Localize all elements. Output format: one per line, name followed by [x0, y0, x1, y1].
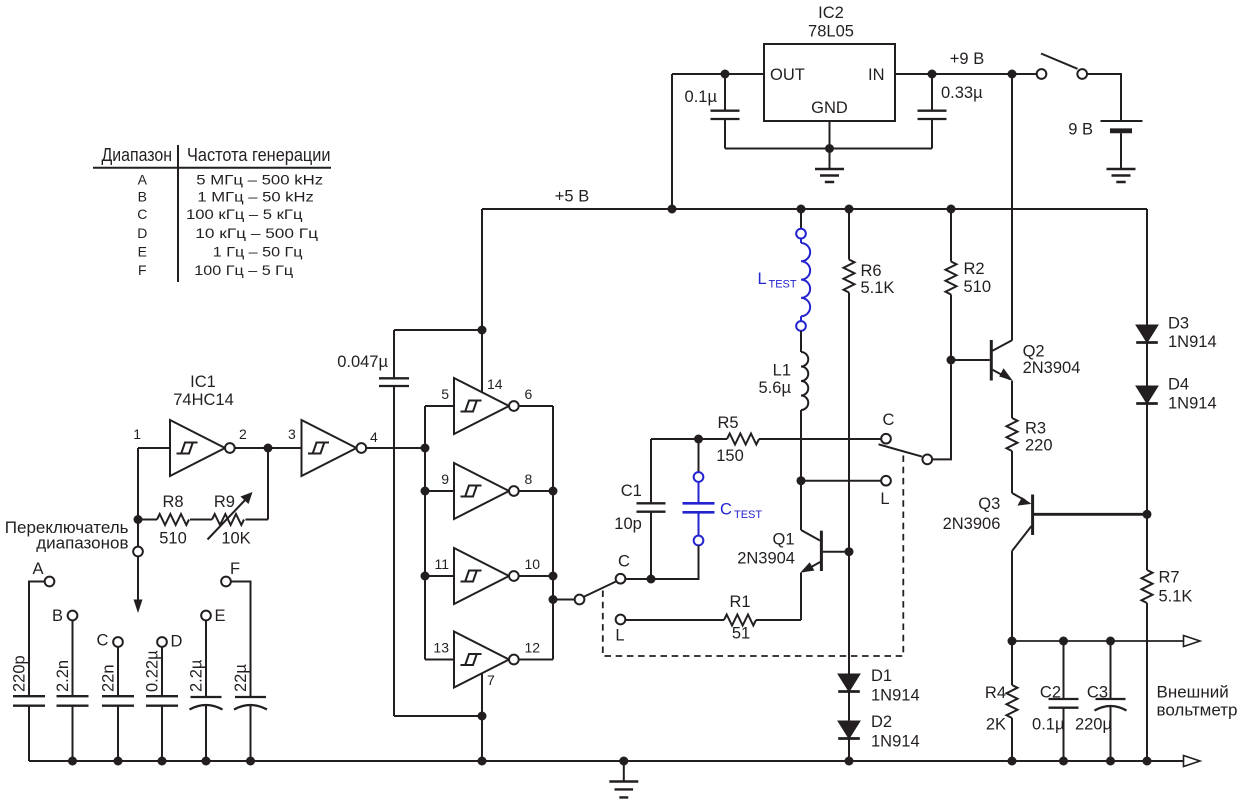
capacitor 0.33u — [918, 74, 984, 149]
capacitor C1 10p — [614, 439, 665, 579]
capacitor 0.047u — [337, 330, 409, 716]
svg-text:IC1: IC1 — [190, 373, 216, 391]
resistor R9 10K variable — [212, 514, 244, 525]
wire to range switch terminal — [137, 520, 139, 547]
svg-text:D2: D2 — [871, 713, 892, 731]
node Q3 base/right rail — [1143, 510, 1152, 519]
svg-text:220µ: 220µ — [1075, 716, 1113, 734]
svg-text:1N914: 1N914 — [1168, 395, 1217, 413]
svg-text:Q2: Q2 — [1023, 342, 1045, 360]
node rail/R2 junction — [947, 205, 956, 214]
svg-text:5.1K: 5.1K — [1159, 588, 1193, 606]
wire D1 to D2 — [848, 692, 850, 722]
wire GND pin stem — [829, 121, 831, 169]
svg-text:1N914: 1N914 — [871, 687, 920, 705]
svg-text:2.2n: 2.2n — [54, 660, 72, 692]
battery 9V — [1068, 121, 1142, 170]
wire switch to battery — [1087, 74, 1121, 120]
wire +9V down to Q2 collector — [1011, 74, 1013, 341]
node bank C/ground rail — [114, 757, 123, 766]
wire selector common to Q2 base node — [932, 365, 951, 460]
wire bus to left selector — [553, 599, 575, 601]
wire ground rail — [29, 760, 1186, 762]
wire left vertical down to +5 rail — [671, 74, 673, 209]
node feedback tap — [264, 444, 273, 453]
wire R7 to ground rail — [1146, 603, 1148, 761]
svg-text:R3: R3 — [1025, 420, 1046, 438]
svg-text:L: L — [758, 270, 767, 288]
svg-text:+9 В: +9 В — [950, 50, 984, 68]
ground battery — [1107, 169, 1136, 182]
range switch wiper arrow — [137, 556, 139, 601]
svg-text:R6: R6 — [861, 262, 882, 280]
svg-text:Внешний: Внешний — [1157, 683, 1229, 702]
svg-text:510: 510 — [964, 278, 992, 296]
inductor L1 5.6u — [759, 352, 809, 410]
svg-text:100 Гц – 5 Гц: 100 Гц – 5 Гц — [194, 262, 293, 278]
svg-text:D4: D4 — [1168, 376, 1189, 394]
svg-text:2.2µ: 2.2µ — [188, 659, 206, 692]
svg-text:OUT: OUT — [770, 66, 805, 84]
node Q1 base junction — [845, 547, 854, 556]
wire output stubs — [519, 405, 553, 407]
svg-text:12: 12 — [525, 640, 541, 656]
transistor Q3 2N3906 — [943, 493, 1147, 641]
svg-text:Частота генерации: Частота генерации — [187, 145, 331, 165]
wire R3 to Q3 emitter — [1011, 451, 1013, 493]
wire L1 down to Q1 collector — [800, 410, 802, 530]
svg-text:C1: C1 — [621, 482, 642, 500]
svg-text:10 кГц – 500 Гц: 10 кГц – 500 Гц — [195, 225, 318, 241]
wire 0.047 bottom link — [394, 715, 482, 717]
resistor R1 51 — [724, 615, 756, 626]
svg-text:C: C — [618, 553, 630, 571]
svg-text:диапазонов: диапазонов — [36, 534, 128, 553]
wire output sense line — [1012, 640, 1186, 642]
node rail/OUT junction — [668, 205, 677, 214]
svg-text:D: D — [171, 633, 183, 651]
svg-text:R2: R2 — [964, 260, 985, 278]
node GND junction — [825, 144, 834, 153]
svg-text:E: E — [214, 607, 225, 625]
dashed test enclosure — [603, 454, 904, 657]
wire D3 to D4 — [1146, 343, 1148, 387]
svg-text:0.33µ: 0.33µ — [941, 84, 983, 102]
svg-text:вольтметр: вольтметр — [1157, 701, 1238, 720]
svg-text:R5: R5 — [717, 414, 738, 432]
diode D2 1N914 — [838, 721, 860, 739]
resistor R8 510 — [157, 514, 189, 525]
ground IC2 — [815, 169, 844, 182]
op-amp U1C schmitt inverter pins 5-6 — [454, 378, 519, 434]
inductor LTEST (device under test, blue) — [758, 209, 811, 331]
node L-terminal tap — [797, 476, 806, 485]
svg-text:C2: C2 — [1040, 684, 1061, 702]
svg-text:78L05: 78L05 — [808, 23, 854, 41]
capacitor C2 0.1u — [1032, 641, 1078, 761]
capacitor bank B 2.2n — [52, 607, 89, 761]
wire R1 line — [625, 619, 724, 621]
svg-text:0.1µ: 0.1µ — [1032, 716, 1065, 734]
wire C terminal to C1/CTEST — [625, 545, 698, 579]
wire +5 left drop to pin 14 — [481, 209, 483, 392]
wire input pin1 — [138, 447, 170, 449]
svg-text:L: L — [615, 627, 624, 645]
table: frequency range table — [93, 145, 331, 282]
wire LTEST to L1 — [800, 331, 802, 352]
switch right C/L selector — [879, 411, 933, 508]
svg-text:C: C — [883, 411, 895, 429]
node bank E/ground rail — [202, 757, 211, 766]
svg-text:14: 14 — [487, 376, 503, 392]
svg-text:9: 9 — [441, 471, 449, 487]
node R7/ground rail — [1143, 757, 1152, 766]
svg-text:2N3904: 2N3904 — [737, 550, 795, 568]
wire feedback horizontal segments — [246, 519, 269, 521]
svg-text:220p: 220p — [11, 655, 29, 692]
diode D1 1N914 — [838, 674, 860, 692]
svg-text:TEST: TEST — [734, 509, 762, 521]
svg-text:1: 1 — [133, 426, 141, 442]
svg-text:1N914: 1N914 — [871, 733, 920, 751]
svg-text:F: F — [138, 262, 147, 278]
svg-text:1 МГц – 50 kHz: 1 МГц – 50 kHz — [197, 189, 313, 205]
wire to right L terminal — [801, 480, 881, 482]
svg-text:IN: IN — [868, 66, 885, 84]
node/ground stem — [619, 757, 628, 766]
svg-text:TEST: TEST — [769, 279, 797, 291]
resistor R4 2K — [985, 641, 1018, 761]
transistor Q2 2N3904 — [951, 340, 1080, 418]
svg-text:R8: R8 — [162, 493, 183, 511]
node bank F/ground rail — [246, 757, 255, 766]
svg-text:R7: R7 — [1159, 569, 1180, 587]
svg-text:11: 11 — [434, 556, 449, 572]
svg-text:51: 51 — [732, 625, 750, 643]
node rail/R6 junction — [845, 205, 854, 214]
svg-text:0.22µ: 0.22µ — [144, 650, 162, 692]
wire D4 down through base node to R7 — [1146, 404, 1148, 571]
svg-text:5: 5 — [441, 386, 449, 402]
op-amp U1E schmitt inverter pins 11-10 — [454, 548, 519, 604]
svg-text:R9: R9 — [214, 493, 235, 511]
svg-text:1 Гц – 50 Гц: 1 Гц – 50 Гц — [213, 244, 303, 260]
svg-text:2: 2 — [239, 426, 247, 442]
op-amp U1F schmitt inverter pins 13-12 — [454, 632, 519, 688]
svg-text:13: 13 — [433, 640, 449, 656]
svg-text:GND: GND — [811, 99, 848, 117]
svg-text:L: L — [880, 490, 889, 508]
svg-text:220: 220 — [1025, 437, 1053, 455]
node Q2 base junction — [947, 356, 956, 365]
node bank B/ground rail — [68, 757, 77, 766]
node +9V junction — [1008, 70, 1017, 79]
wire IN pin to switch — [895, 73, 1037, 75]
op-amp U1D schmitt inverter pins 9-8 — [454, 463, 519, 519]
wire OUT pin to left vertical — [672, 73, 764, 75]
transistor Q1 2N3904 — [737, 530, 849, 620]
svg-text:22n: 22n — [100, 664, 118, 692]
node feedback/switch junction — [134, 515, 143, 524]
svg-text:510: 510 — [159, 530, 187, 548]
svg-text:A: A — [138, 172, 148, 188]
resistor R7 5.1K — [1142, 570, 1153, 603]
svg-text:C: C — [97, 632, 109, 650]
op-amp U1B schmitt inverter pins 3-4 — [302, 420, 367, 476]
svg-text:7: 7 — [487, 672, 495, 688]
diode D4 1N914 — [1136, 386, 1158, 404]
range switch pole circle — [133, 547, 143, 557]
capacitor 0.1u — [685, 74, 740, 149]
svg-text:10p: 10p — [614, 515, 642, 533]
svg-text:L1: L1 — [773, 362, 791, 380]
svg-text:4: 4 — [370, 429, 378, 445]
svg-text:74HC14: 74HC14 — [173, 391, 234, 409]
wire ground bus under IC2 — [725, 148, 932, 150]
svg-text:D3: D3 — [1168, 315, 1189, 333]
node D2/ground rail — [845, 757, 854, 766]
svg-text:R1: R1 — [729, 593, 750, 611]
capacitor bank F 22u polarized — [221, 560, 267, 761]
svg-text:3: 3 — [288, 426, 296, 442]
wire +5 V rail — [482, 208, 1147, 210]
node bank D/ground rail — [158, 757, 167, 766]
svg-text:C: C — [137, 206, 147, 222]
svg-text:22µ: 22µ — [232, 664, 250, 692]
wire feedback left rise to pin1 — [137, 448, 139, 520]
wire feedback right drop — [267, 448, 269, 520]
svg-text:B: B — [52, 607, 63, 625]
svg-text:IC2: IC2 — [818, 4, 844, 22]
svg-text:150: 150 — [716, 447, 744, 465]
resistor R3 220 — [1007, 418, 1018, 451]
svg-text:Q3: Q3 — [978, 495, 1000, 513]
svg-text:B: B — [138, 189, 147, 205]
svg-text:C: C — [720, 501, 732, 519]
wire right rail top — [1146, 209, 1148, 325]
IC2 regulator box 78L05 — [764, 4, 895, 121]
wire R5 line — [651, 438, 727, 440]
wire pin2 to pin3 — [235, 447, 302, 449]
resistor R5 150 — [727, 434, 759, 445]
svg-text:5 МГц – 500 kHz: 5 МГц – 500 kHz — [196, 172, 323, 188]
svg-text:R4: R4 — [985, 684, 1006, 702]
wire D2 to ground rail — [848, 739, 850, 762]
node 0.047 top tee — [478, 326, 487, 335]
svg-text:2K: 2K — [986, 716, 1006, 734]
node 0.047 bottom tee — [478, 712, 487, 721]
svg-text:10: 10 — [525, 556, 541, 572]
svg-text:C3: C3 — [1087, 684, 1108, 702]
svg-text:D: D — [137, 225, 147, 241]
capacitor CTEST (device under test, blue) — [683, 439, 763, 579]
node CTEST top tee — [694, 435, 703, 444]
node C1 bottom tee — [647, 575, 656, 584]
node C3/ground rail — [1106, 757, 1115, 766]
svg-text:2N3904: 2N3904 — [1023, 359, 1081, 377]
svg-text:0.047µ: 0.047µ — [337, 353, 388, 371]
capacitor C3 220u polarized — [1075, 641, 1127, 761]
wire input stubs — [425, 405, 454, 407]
node pin7/ground rail — [478, 757, 487, 766]
diode D3 1N914 — [1136, 325, 1158, 343]
switch power on/off — [1037, 54, 1087, 79]
svg-text:9 В: 9 В — [1068, 121, 1093, 139]
node IN/C0.33 junction — [928, 70, 937, 79]
switch left C/L selector — [575, 553, 630, 645]
svg-text:A: A — [32, 560, 43, 578]
svg-text:8: 8 — [525, 471, 533, 487]
svg-text:2N3906: 2N3906 — [943, 515, 1001, 533]
svg-text:D1: D1 — [871, 667, 892, 685]
svg-text:10K: 10K — [221, 530, 250, 548]
wire R6 to D1 — [848, 293, 850, 675]
resistor R6 5.1K — [844, 209, 895, 297]
wire 0.047 top link — [394, 329, 482, 331]
wire pin4 to bank input bus — [366, 447, 425, 449]
capacitor bank E 2.2u polarized — [188, 607, 226, 761]
svg-text:Q1: Q1 — [772, 531, 794, 549]
svg-text:F: F — [230, 560, 240, 578]
ground main — [609, 782, 638, 798]
svg-text:5.6µ: 5.6µ — [759, 379, 792, 397]
wire pin 7 to ground rail — [481, 674, 483, 762]
bank output bus — [552, 406, 554, 660]
node rail/LTEST junction — [797, 205, 806, 214]
op-amp U1A schmitt inverter pins 1-2 — [170, 420, 235, 476]
svg-text:E: E — [138, 244, 147, 260]
capacitor bank D 0.22u — [144, 633, 183, 762]
capacitor bank C 22n — [97, 632, 134, 762]
svg-text:6: 6 — [525, 386, 533, 402]
node C2/ground rail — [1059, 757, 1068, 766]
node bus/pin4 junction — [421, 444, 430, 453]
svg-text:Диапазон: Диапазон — [102, 145, 173, 165]
node R4/ground rail — [1008, 757, 1017, 766]
svg-text:100 кГц – 5 кГц: 100 кГц – 5 кГц — [186, 206, 303, 222]
capacitor bank A 220p — [11, 560, 55, 761]
resistor R2 510 — [946, 209, 992, 360]
node OUT/C0.1 junction — [721, 70, 730, 79]
svg-text:0.1µ: 0.1µ — [685, 88, 718, 106]
svg-text:5.1K: 5.1K — [861, 279, 895, 297]
svg-text:+5 В: +5 В — [555, 188, 589, 206]
bank input bus — [424, 406, 426, 660]
svg-text:1N914: 1N914 — [1168, 333, 1217, 351]
